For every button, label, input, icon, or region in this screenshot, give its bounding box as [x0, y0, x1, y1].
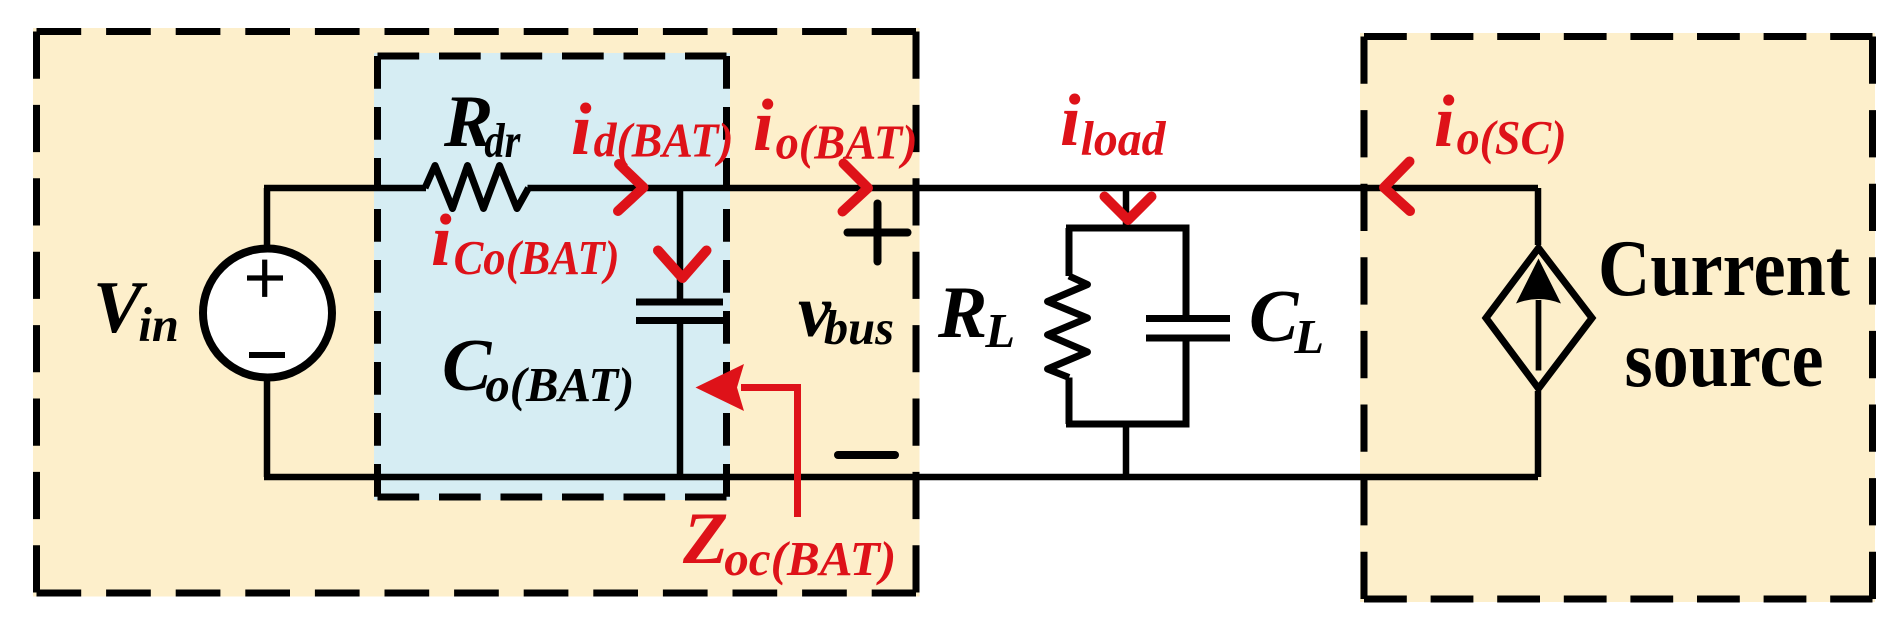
svg-text:source: source — [1625, 316, 1824, 404]
svg-text:Current: Current — [1598, 225, 1850, 313]
